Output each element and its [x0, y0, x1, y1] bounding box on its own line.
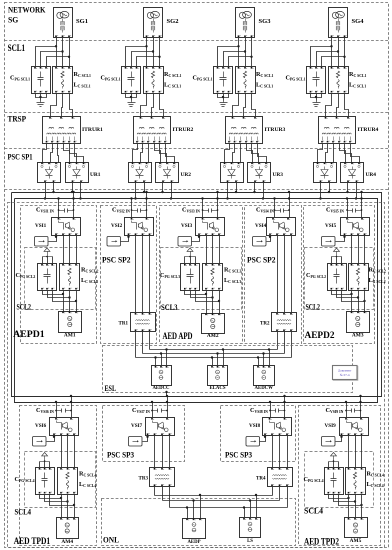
- svg-text:AEPD2: AEPD2: [305, 330, 335, 341]
- section box PSC SP2 no.1: [101, 206, 157, 344]
- gate driver unit VSI5: [322, 237, 336, 247]
- transformer ITRUR4: [319, 117, 379, 144]
- capacitor C_VSI5 IN: [326, 206, 362, 213]
- capacitor bank C_PG SCL1 (group 1): [32, 67, 51, 94]
- svg-text:PSC SP3: PSC SP3: [225, 451, 252, 460]
- wire ITRUR3 to UR3: [225, 144, 267, 163]
- capacitor C_VSI1 IN: [36, 206, 74, 213]
- approval stamp note: [333, 366, 358, 381]
- section box PSC SP3 no.1: [103, 406, 185, 462]
- wire TR1 outputs to ESL bus: [136, 332, 150, 358]
- damping branch R-L SCL1 (group 2): [144, 67, 164, 94]
- wire C_PG SCL1 bottom to ground (group 3): [218, 94, 229, 101]
- svg-text:PSC SP1: PSC SP1: [8, 153, 33, 162]
- rectifier UR4 bridge b: [341, 163, 364, 183]
- wire TR4 outputs to ONL bus: [273, 487, 288, 508]
- svg-text:№ 07-п: № 07-п: [340, 373, 350, 377]
- svg-text:ESL: ESL: [105, 384, 117, 393]
- wire DC feed VSI8: [269, 395, 286, 418]
- wire SCL1 to ITRUR4: [326, 94, 349, 117]
- wire DC feed VSI2: [130, 191, 147, 218]
- svg-text:VSI3: VSI3: [181, 223, 193, 229]
- svg-text:SG4: SG4: [352, 19, 364, 25]
- inverter VSI2: [111, 218, 154, 236]
- load unit AEDCC: [152, 366, 172, 392]
- wire filter to motor with C-branch joins: [329, 495, 363, 518]
- wire filter to motor with C-branch joins: [332, 291, 366, 312]
- svg-text:NETWORK: NETWORK: [8, 6, 46, 15]
- wire C_PG SCL1 bottom to ground (group 4): [311, 94, 322, 101]
- damping branch R-L SCL1 (group 4): [329, 67, 349, 94]
- svg-text:UR3: UR3: [273, 172, 284, 178]
- capacitor C_VSI4 IN: [256, 206, 290, 213]
- svg-text:VSI4: VSI4: [255, 223, 267, 229]
- rectifier UR4 bridge a: [314, 163, 337, 183]
- wire VSI2 phases to TR1: [136, 236, 150, 313]
- transformer ITRUR2: [134, 117, 194, 144]
- wire SG4 phase lines: [311, 38, 346, 67]
- svg-text:VSI5: VSI5: [325, 223, 337, 229]
- section box AED APD: [160, 206, 243, 344]
- section box PSC SP3 no.2: [221, 406, 296, 462]
- svg-text:VSI6: VSI6: [35, 423, 47, 429]
- rectifier UR2 bridge b: [156, 163, 179, 183]
- ONL three-phase bus: [155, 496, 288, 508]
- load unit ELACS: [208, 366, 228, 392]
- damping branch R-L SCL2 (right): [349, 264, 369, 291]
- wire driver to VSI2: [121, 236, 130, 242]
- damping branch R-L SCL1 (group 1): [53, 67, 73, 94]
- svg-text:PSC SP2: PSC SP2: [247, 255, 276, 264]
- transformer TR1: [119, 313, 156, 332]
- wire driver to VSI3: [192, 236, 201, 242]
- ESL three-phase bus: [136, 350, 292, 358]
- wire DC feed VSI6: [55, 395, 72, 418]
- svg-text:AM4: AM4: [61, 539, 73, 545]
- wire UR1 outputs to DC bus: [44, 183, 82, 200]
- capacitor bank C_PG SCL1 (group 4): [307, 67, 326, 94]
- svg-text:ITRUR1: ITRUR1: [82, 127, 103, 133]
- wire driver to VSI8: [260, 436, 267, 442]
- svg-text:VSI8: VSI8: [249, 423, 261, 429]
- gate driver unit VSI6: [33, 437, 47, 447]
- wire SG1 phase lines: [36, 38, 71, 67]
- svg-text:ITRUR4: ITRUR4: [358, 127, 379, 133]
- svg-text:SG: SG: [8, 15, 19, 24]
- inverter VSI6: [35, 418, 79, 436]
- inner box SCL2 (right): [305, 248, 374, 310]
- inverter VSI8: [249, 418, 292, 436]
- capacitor C_VSI2 IN: [112, 206, 147, 213]
- wire driver to VSI1: [49, 236, 58, 242]
- svg-text:AM3: AM3: [352, 333, 364, 339]
- gate driver unit VSI2: [107, 237, 121, 247]
- wire taps to AEDCC: [154, 348, 167, 365]
- wire combiner drops: [332, 257, 342, 264]
- wire ITRUR1 to UR1: [43, 144, 84, 163]
- wire DC feed VSI7: [151, 395, 168, 418]
- rectifier UR1 bridge b: [66, 163, 89, 183]
- gate driver unit VSI7: [129, 437, 143, 447]
- motor AM2: [202, 314, 225, 340]
- rectifier UR2 bridge a: [129, 163, 152, 183]
- generator SG4: [329, 8, 364, 38]
- motor AM5: [345, 518, 368, 545]
- wire driver to VSI5: [336, 236, 346, 242]
- svg-text:VSI1: VSI1: [35, 223, 47, 229]
- section box AED TPD2: [299, 406, 381, 546]
- svg-text:LS: LS: [247, 539, 253, 544]
- svg-text:VSI9: VSI9: [325, 423, 337, 429]
- svg-text:AEDCW: AEDCW: [255, 386, 274, 391]
- svg-text:SCL4: SCL4: [304, 507, 323, 516]
- svg-text:ELACS: ELACS: [210, 386, 226, 391]
- generator SG1: [54, 8, 89, 38]
- wire phases through filter: [62, 436, 75, 468]
- rectifier UR1 bridge a: [38, 163, 61, 183]
- wire combiner drops: [329, 462, 339, 468]
- capacitor bank C_PG SCL2 (right): [328, 264, 347, 291]
- svg-text:SG3: SG3: [259, 19, 271, 25]
- wire UR4 outputs to DC bus: [319, 183, 357, 200]
- inner box SCL4 (right): [305, 452, 374, 508]
- DC bus negative rail: [15, 199, 378, 403]
- section box AED TPD1: [20, 406, 97, 546]
- wire ITRUR2 to UR2: [133, 144, 175, 163]
- surge tap to C_PG SCL2 (right): [332, 248, 342, 257]
- rectifier UR3 bridge b: [248, 163, 271, 183]
- damping branch R-L SCL3: [203, 264, 223, 291]
- wire SCL1 to ITRUR3: [233, 94, 256, 117]
- wire SCL1 to ITRUR2: [141, 94, 164, 117]
- svg-text:SCL4: SCL4: [15, 508, 32, 517]
- transformer TR2: [260, 313, 296, 332]
- wire phases through filter: [207, 236, 220, 264]
- section box PSC SP2 no.2: [245, 206, 302, 344]
- svg-text:AED TPD2: AED TPD2: [304, 537, 339, 548]
- wire driver to VSI4: [267, 236, 272, 242]
- svg-text:ONL: ONL: [103, 535, 119, 545]
- capacitor bank C_PG SCL4 (right): [325, 468, 344, 495]
- inverter VSI1: [35, 218, 81, 236]
- inverter VSI5: [325, 218, 370, 236]
- svg-text:SG2: SG2: [167, 19, 179, 25]
- transformer ITRUR1: [43, 117, 104, 144]
- svg-text:PSC SP3: PSC SP3: [107, 451, 134, 460]
- section box AEPD1: [21, 206, 97, 344]
- wire DC feed VSI1: [57, 191, 74, 218]
- wire UR3 outputs to DC bus: [226, 183, 264, 200]
- transformer ITRUR3: [226, 117, 286, 144]
- svg-text:PSC SP2: PSC SP2: [102, 255, 131, 264]
- wire filter to motor with C-branch joins: [43, 291, 78, 312]
- gate driver unit VSI8: [246, 437, 260, 447]
- inner box SCL4 (left): [25, 452, 96, 508]
- ground: [313, 101, 321, 107]
- assembly frame (drive sections): [8, 203, 385, 548]
- capacitor bank C_PC SCL2 (left): [38, 264, 57, 291]
- load unit AEDCW: [254, 366, 275, 392]
- svg-text:TR4: TR4: [256, 477, 266, 482]
- svg-text:UR4: UR4: [366, 172, 377, 178]
- wire TR3 outputs to ONL bus: [155, 487, 170, 508]
- svg-text:AED TPD1: AED TPD1: [14, 536, 51, 547]
- svg-text:AM1: AM1: [64, 333, 76, 339]
- ground: [220, 101, 228, 107]
- svg-text:ITRUR2: ITRUR2: [173, 127, 194, 133]
- section box ONL: [102, 499, 296, 546]
- wire driver to VSI9: [336, 436, 343, 442]
- svg-text:Документ: Документ: [338, 369, 352, 373]
- surge tap to C_PG SCL4 (right): [329, 453, 339, 462]
- inverter VSI3: [181, 218, 225, 236]
- wire ESL to lower bus stub: [165, 391, 167, 397]
- wire TR2 outputs to ESL bus: [278, 332, 292, 358]
- svg-text:UR1: UR1: [90, 172, 101, 178]
- svg-text:AM5: AM5: [350, 538, 362, 544]
- section box ESL: [103, 346, 353, 393]
- wire phases through filter: [352, 236, 365, 264]
- wire combiner drops: [185, 257, 196, 264]
- ground: [128, 101, 136, 107]
- svg-text:TR3: TR3: [139, 477, 149, 482]
- svg-text:TR1: TR1: [119, 322, 129, 327]
- svg-text:AEDP: AEDP: [187, 540, 200, 545]
- svg-text:AEPD1: AEPD1: [13, 329, 45, 340]
- wire SCL1 to ITRUR1: [51, 94, 73, 117]
- wire driver to VSI7: [143, 436, 149, 442]
- wire filter to motor with C-branch joins: [40, 495, 76, 518]
- load unit AEDP: [183, 519, 206, 546]
- inverter VSI7: [131, 418, 175, 436]
- svg-text:SCL1: SCL1: [8, 43, 26, 53]
- surge tap to C_PG SCL3: [185, 248, 196, 257]
- svg-text:SCL3: SCL3: [161, 303, 178, 312]
- wire VSI4 phases to TR2: [278, 236, 292, 313]
- svg-text:SCL2: SCL2: [17, 303, 32, 312]
- gate driver unit VSI4: [253, 237, 267, 247]
- transformer TR3: [139, 468, 175, 487]
- wire DC feed VSI4: [273, 191, 290, 218]
- svg-text:UR2: UR2: [181, 172, 192, 178]
- damping branch R-L SCL1 (group 3): [236, 67, 256, 94]
- transformer TR4: [256, 468, 292, 487]
- rectifier UR3 bridge a: [221, 163, 244, 183]
- svg-text:ITRUR3: ITRUR3: [265, 127, 286, 133]
- wire taps to LS: [243, 494, 257, 518]
- wire SG3 phase lines: [218, 38, 253, 67]
- wire C_PG SCL1 bottom to ground (group 1): [36, 94, 47, 101]
- section box AEPD2: [304, 206, 375, 344]
- svg-text:SCL2: SCL2: [306, 303, 321, 312]
- wire ITRUR4 to UR4: [318, 144, 360, 163]
- generator SG3: [236, 8, 271, 38]
- capacitor C_VSI6 IN: [36, 407, 72, 414]
- svg-text:SG1: SG1: [76, 19, 88, 25]
- wire taps to AEDCW: [257, 348, 270, 365]
- damping branch R-L SCL4 (left): [58, 468, 78, 495]
- wire driver to VSI6: [47, 436, 56, 442]
- motor AM1: [59, 312, 82, 339]
- wire combiner drops: [43, 257, 53, 264]
- wire filter to motor with C-branch joins: [185, 291, 221, 314]
- svg-text:AM2: AM2: [207, 333, 219, 339]
- gate driver unit VSI3: [178, 237, 192, 247]
- svg-text:AEDCC: AEDCC: [152, 386, 170, 391]
- wire VSI7 phases to TR3: [155, 436, 170, 468]
- wire C_PG SCL1 bottom to ground (group 2): [126, 94, 137, 101]
- capacitor C_VSI9 IN: [326, 407, 362, 414]
- inner box SCL3: [161, 248, 242, 310]
- wire combiner drops: [40, 462, 50, 468]
- wire taps to AEDP: [186, 494, 201, 519]
- capacitor bank C_PG SCL4 (left): [36, 468, 55, 495]
- load unit LS: [240, 518, 261, 545]
- wire taps to ELACS: [211, 348, 224, 365]
- motor AM4: [57, 518, 79, 546]
- wire DC feed VSI5: [346, 191, 363, 218]
- wire phases through filter: [349, 436, 362, 468]
- surge tap to C_PG SCL4 (left): [40, 453, 50, 462]
- motor AM3: [347, 312, 370, 339]
- generator SG2: [144, 8, 179, 38]
- DC bus positive rail: [12, 193, 382, 397]
- surge tap to C_PC SCL2: [43, 248, 53, 257]
- wire UR2 outputs to DC bus: [134, 183, 172, 200]
- capacitor bank C_PG SCL1 (group 2): [122, 67, 141, 94]
- capacitor C_VSI3 IN: [182, 206, 218, 213]
- inner box SCL2 (left): [25, 248, 96, 310]
- wire DC feed VSI3: [201, 191, 218, 218]
- svg-text:VSI2: VSI2: [111, 223, 123, 229]
- svg-text:TRSP: TRSP: [8, 114, 27, 124]
- inverter VSI4: [255, 218, 296, 236]
- wire phases through filter: [64, 236, 77, 264]
- wire VSI8 phases to TR4: [273, 436, 288, 468]
- gate driver unit VSI1: [35, 237, 49, 247]
- damping branch R-L SCL4 (right): [346, 468, 366, 495]
- svg-text:TR2: TR2: [260, 322, 270, 327]
- svg-text:AED APD: AED APD: [163, 331, 193, 342]
- capacitor bank C_PG SCL1 (group 3): [214, 67, 233, 94]
- capacitor bank C_PG SCL3: [181, 264, 200, 291]
- damping branch R-L SCL2 (left): [60, 264, 80, 291]
- ground: [37, 101, 45, 107]
- capacitor C_VSI7 IN: [132, 407, 168, 414]
- section label NETWORK SG: [8, 6, 46, 25]
- gate driver unit VSI9: [322, 437, 336, 447]
- wire DC feed VSI9: [345, 395, 362, 418]
- svg-text:VSI7: VSI7: [131, 423, 143, 429]
- wire SG2 phase lines: [126, 38, 161, 67]
- capacitor C_VSI8 IN: [250, 407, 285, 414]
- inverter VSI9: [325, 418, 369, 436]
